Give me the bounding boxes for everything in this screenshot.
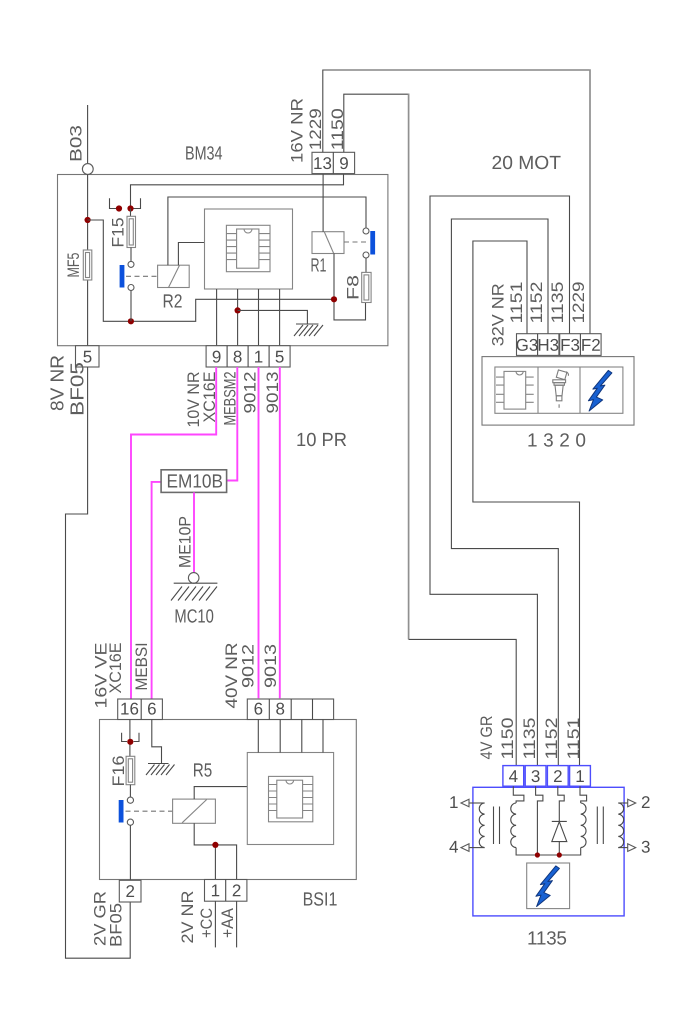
svg-text:BF05: BF05 <box>108 903 126 947</box>
fuse MF5 <box>83 250 92 280</box>
svg-text:4: 4 <box>509 767 518 786</box>
wire +AA feed <box>236 901 238 947</box>
relay R5 <box>173 799 216 823</box>
transformer T2 core <box>597 807 603 845</box>
box 1320 outer <box>482 357 634 426</box>
wire HT output 2 <box>618 802 627 804</box>
junction switch bottom <box>128 318 134 324</box>
svg-text:4: 4 <box>449 838 458 857</box>
ECU box U1 (BM34) <box>205 209 293 289</box>
node bracket dot right <box>127 205 133 211</box>
svg-text:2: 2 <box>125 882 134 901</box>
svg-text:BSI1: BSI1 <box>303 890 338 911</box>
switch contact bottom (F8) <box>363 252 369 258</box>
box 1320 inner <box>495 367 623 413</box>
wire ECU pin to cell 5 <box>279 289 281 346</box>
svg-text:1229: 1229 <box>570 282 588 324</box>
chip pins U1 left <box>226 234 236 260</box>
wire cell16 to F16 <box>129 720 131 757</box>
node MC10 ground terminal circle <box>188 573 199 584</box>
connector 1/2 (BSI bottom) <box>205 880 247 902</box>
wire R1 coil top from cell 13 <box>322 174 324 232</box>
dashed link actuator to R5 <box>126 810 173 812</box>
junction rail dot A <box>535 852 540 857</box>
wire 1229 net (cell13 to F2) <box>323 70 590 152</box>
transformer T1 primary coil (left inner) <box>511 803 516 848</box>
wire 9013 (magenta) <box>279 367 281 698</box>
wire R5 bottom rail <box>194 823 236 879</box>
ground (BSI internal) <box>148 763 169 765</box>
lightning bolt icon (1320) <box>588 370 612 411</box>
lightning bolt box (1135) <box>527 863 570 909</box>
wire F16 to switch <box>129 785 131 797</box>
svg-text:40V NR: 40V NR <box>223 642 241 708</box>
switch actuator bar (blue) <box>120 265 125 288</box>
chip body U2 <box>277 780 303 818</box>
lightning bolt icon (1135) <box>536 866 560 907</box>
svg-text:F2: F2 <box>581 336 601 355</box>
connector bracket F16 right <box>134 733 139 742</box>
ECU box U2 (BSI) <box>247 753 333 845</box>
connector G3/H3/F3/F2 (1320) <box>517 334 559 356</box>
node EM10B splice box <box>161 470 227 493</box>
wire 1150 net (cell9 to 1135 pin4) <box>344 94 409 152</box>
connector 16/6 (BSI top left) <box>118 699 163 720</box>
wire HT output 3 <box>618 847 627 849</box>
svg-text:4V GR: 4V GR <box>478 715 496 759</box>
relay R1 <box>312 232 344 254</box>
wire branch to switch bottom rail <box>88 220 334 321</box>
svg-text:R2: R2 <box>162 292 182 313</box>
relay R2 <box>158 265 190 287</box>
junction R5 rail <box>212 842 218 848</box>
svg-text:32V NR: 32V NR <box>490 283 508 346</box>
svg-text:1151: 1151 <box>508 282 526 324</box>
wire 1135 net (F3 to 1135 pin3) <box>430 196 570 766</box>
svg-text:+CC: +CC <box>198 908 216 938</box>
svg-text:10 PR: 10 PR <box>296 430 347 451</box>
svg-text:MEBSI: MEBSI <box>133 643 151 691</box>
switch contact top (BSI) <box>127 797 133 803</box>
svg-text:MF5: MF5 <box>65 253 83 278</box>
wire BSI pins to ECU <box>258 720 323 753</box>
svg-text:R5: R5 <box>193 761 213 782</box>
wire switch to connector 2 <box>129 825 131 880</box>
svg-text:2: 2 <box>641 793 650 812</box>
wire ECU pin to cell 1 <box>258 289 260 346</box>
box 1135 (blue) <box>473 787 624 916</box>
wire +CC feed <box>214 901 216 947</box>
arrow output 2 <box>628 799 636 807</box>
svg-text:B03: B03 <box>68 125 86 162</box>
switch contact bottom (BSI) <box>127 819 133 825</box>
svg-text:9012: 9012 <box>240 644 258 688</box>
dashed link actuator to R2 <box>126 275 158 277</box>
svg-text:1135: 1135 <box>521 718 539 760</box>
chip frame U2 <box>269 776 313 821</box>
svg-text:F3: F3 <box>560 336 580 355</box>
svg-text:G3: G3 <box>516 336 539 355</box>
ground (BM34 internal) <box>296 323 319 325</box>
wire MF5 branch vertical <box>87 175 89 346</box>
fuse F16 <box>126 756 135 784</box>
svg-text:1135: 1135 <box>549 282 567 324</box>
wire F15 to switch <box>130 248 132 262</box>
junction ground branch <box>235 307 241 313</box>
svg-text:3: 3 <box>641 838 650 857</box>
svg-text:F8: F8 <box>345 275 363 300</box>
svg-text:6: 6 <box>147 699 156 718</box>
svg-text:16: 16 <box>120 699 139 718</box>
svg-text:F16: F16 <box>110 756 128 787</box>
dashed link R1 to F8 actuator <box>344 241 368 243</box>
svg-text:9: 9 <box>339 154 348 173</box>
connector 13/9 (BM34 top) <box>312 152 355 173</box>
chip pins U1 right <box>259 234 270 260</box>
svg-text:MC10: MC10 <box>174 607 213 628</box>
svg-text:1: 1 <box>575 767 584 786</box>
wire 9012 (magenta) <box>258 367 260 698</box>
svg-text:EM10B: EM10B <box>166 472 223 493</box>
arrow output 3 <box>628 844 636 852</box>
wire R5 coil to ECU <box>194 787 247 800</box>
svg-text:1152: 1152 <box>543 718 561 760</box>
switch actuator bar BSI (blue) <box>119 800 124 823</box>
arrow output 1 <box>461 799 469 807</box>
switch contact top (F15) <box>128 261 134 267</box>
svg-text:H3: H3 <box>537 336 559 355</box>
chip pins U2 left <box>269 785 277 811</box>
svg-text:1151: 1151 <box>565 718 583 760</box>
node bracket dot F16 <box>127 739 133 745</box>
connector 2 (BSI bottom left) <box>119 880 141 902</box>
svg-text:1150: 1150 <box>499 718 517 760</box>
svg-text:R1: R1 <box>310 256 326 277</box>
wire 1151 net (G3 to 1135 pin1) <box>473 241 580 766</box>
svg-text:BM34: BM34 <box>185 144 223 165</box>
chip pins U2 right <box>303 785 313 811</box>
svg-text:2V NR: 2V NR <box>179 890 197 943</box>
connector 4/3/2/1 (1135) <box>503 766 524 787</box>
wire MEBSI (magenta) <box>152 482 162 699</box>
svg-text:9: 9 <box>212 347 221 366</box>
junction R1/ECU wire <box>331 296 337 302</box>
switch contact top (F8) <box>363 228 369 234</box>
fuse F8 <box>362 272 371 302</box>
wire cell6 to ground <box>152 720 162 764</box>
svg-text:8: 8 <box>233 347 242 366</box>
svg-text:1320: 1320 <box>527 431 586 452</box>
wire bracket to F15 <box>130 209 132 217</box>
wire pin3 to common rail <box>536 786 543 855</box>
svg-text:+AA: +AA <box>219 908 237 938</box>
junction on B03 wire <box>85 217 91 223</box>
wire R1 bottom to F8 <box>334 254 366 320</box>
svg-text:BF05: BF05 <box>68 362 88 416</box>
svg-text:3: 3 <box>531 767 540 786</box>
fuse F15 <box>127 216 136 247</box>
svg-text:1: 1 <box>254 347 263 366</box>
connector bracket left of F15 <box>110 198 122 208</box>
svg-text:1152: 1152 <box>528 282 546 324</box>
wire ME10P (magenta) <box>193 492 195 572</box>
arrow output 4 <box>461 844 469 852</box>
svg-text:13: 13 <box>313 154 332 173</box>
svg-text:1135: 1135 <box>527 929 567 950</box>
svg-text:9012: 9012 <box>242 372 260 414</box>
wire HT output 4 <box>469 847 485 849</box>
wire ground branch <box>238 310 308 324</box>
svg-text:2: 2 <box>553 767 562 786</box>
node B03 terminal circle <box>82 164 93 175</box>
svg-text:20 MOT: 20 MOT <box>491 153 561 174</box>
connector bracket right of F15 <box>129 198 141 208</box>
svg-text:16V NR: 16V NR <box>289 98 307 163</box>
wire switch to bottom rail <box>130 291 132 322</box>
wire R2 pin2 to ECU <box>178 243 204 266</box>
junction rail dot B <box>557 852 562 857</box>
transformer T2 secondary coil (right outer) <box>618 803 623 848</box>
diode D1 <box>552 821 567 855</box>
wire common rail <box>516 848 581 855</box>
transformer T1 secondary coil (left outer) <box>479 803 484 848</box>
chip body U1 <box>237 229 259 268</box>
svg-text:1: 1 <box>211 881 220 900</box>
wire BF05 trunk <box>66 367 131 958</box>
svg-text:5: 5 <box>275 347 284 366</box>
wire ECU pin to cell 9 <box>216 289 218 346</box>
transformer T1 core <box>494 807 500 845</box>
svg-text:8: 8 <box>275 699 284 718</box>
ground MC10 <box>174 582 218 584</box>
connector bracket F16 left <box>122 733 127 742</box>
box BSI1 <box>100 720 357 880</box>
chip icon (1320) <box>504 371 526 409</box>
svg-text:F15: F15 <box>110 218 128 248</box>
wire XC16E (magenta) <box>131 367 216 699</box>
wire R2 pin1 to F8 switch line <box>168 197 366 265</box>
connector 9/8/1/5 (BM34 bottom) <box>206 346 290 367</box>
connector 5 (BM34 bottom left) <box>76 346 100 367</box>
wire 1152 net (H3 to 1135 pin2) <box>451 219 558 766</box>
wire F8 switch to fuse <box>365 258 367 272</box>
svg-text:ME10P: ME10P <box>177 516 195 568</box>
switch contact bottom (F15) <box>128 285 134 291</box>
wire ECU pin to cell 8 <box>237 289 239 346</box>
wire pin4 to primary coil <box>513 786 524 803</box>
chip frame U1 <box>226 225 270 271</box>
svg-text:2: 2 <box>232 881 241 900</box>
wire HT output 1 <box>469 802 485 804</box>
wire F15 top feed from pin 9 <box>131 174 344 206</box>
svg-text:9013: 9013 <box>262 644 280 688</box>
box BM34 <box>58 175 388 346</box>
wire B03 feed <box>87 105 89 163</box>
svg-text:8V NR: 8V NR <box>48 355 68 411</box>
injector icon (1320) <box>553 370 569 408</box>
wire MEBSM2 (magenta) <box>227 367 238 481</box>
wire pin2 to diode <box>558 786 564 821</box>
svg-text:6: 6 <box>254 699 263 718</box>
connector 6/8/x/x (BSI top right) <box>247 699 333 720</box>
node bracket dot left <box>116 205 122 211</box>
wire pin1 to primary coil right <box>580 786 587 803</box>
transformer T2 primary coil (right inner) <box>581 803 586 848</box>
svg-text:XC16E: XC16E <box>107 643 125 694</box>
svg-text:1: 1 <box>449 793 458 812</box>
switch actuator bar F8 (blue) <box>370 231 375 255</box>
